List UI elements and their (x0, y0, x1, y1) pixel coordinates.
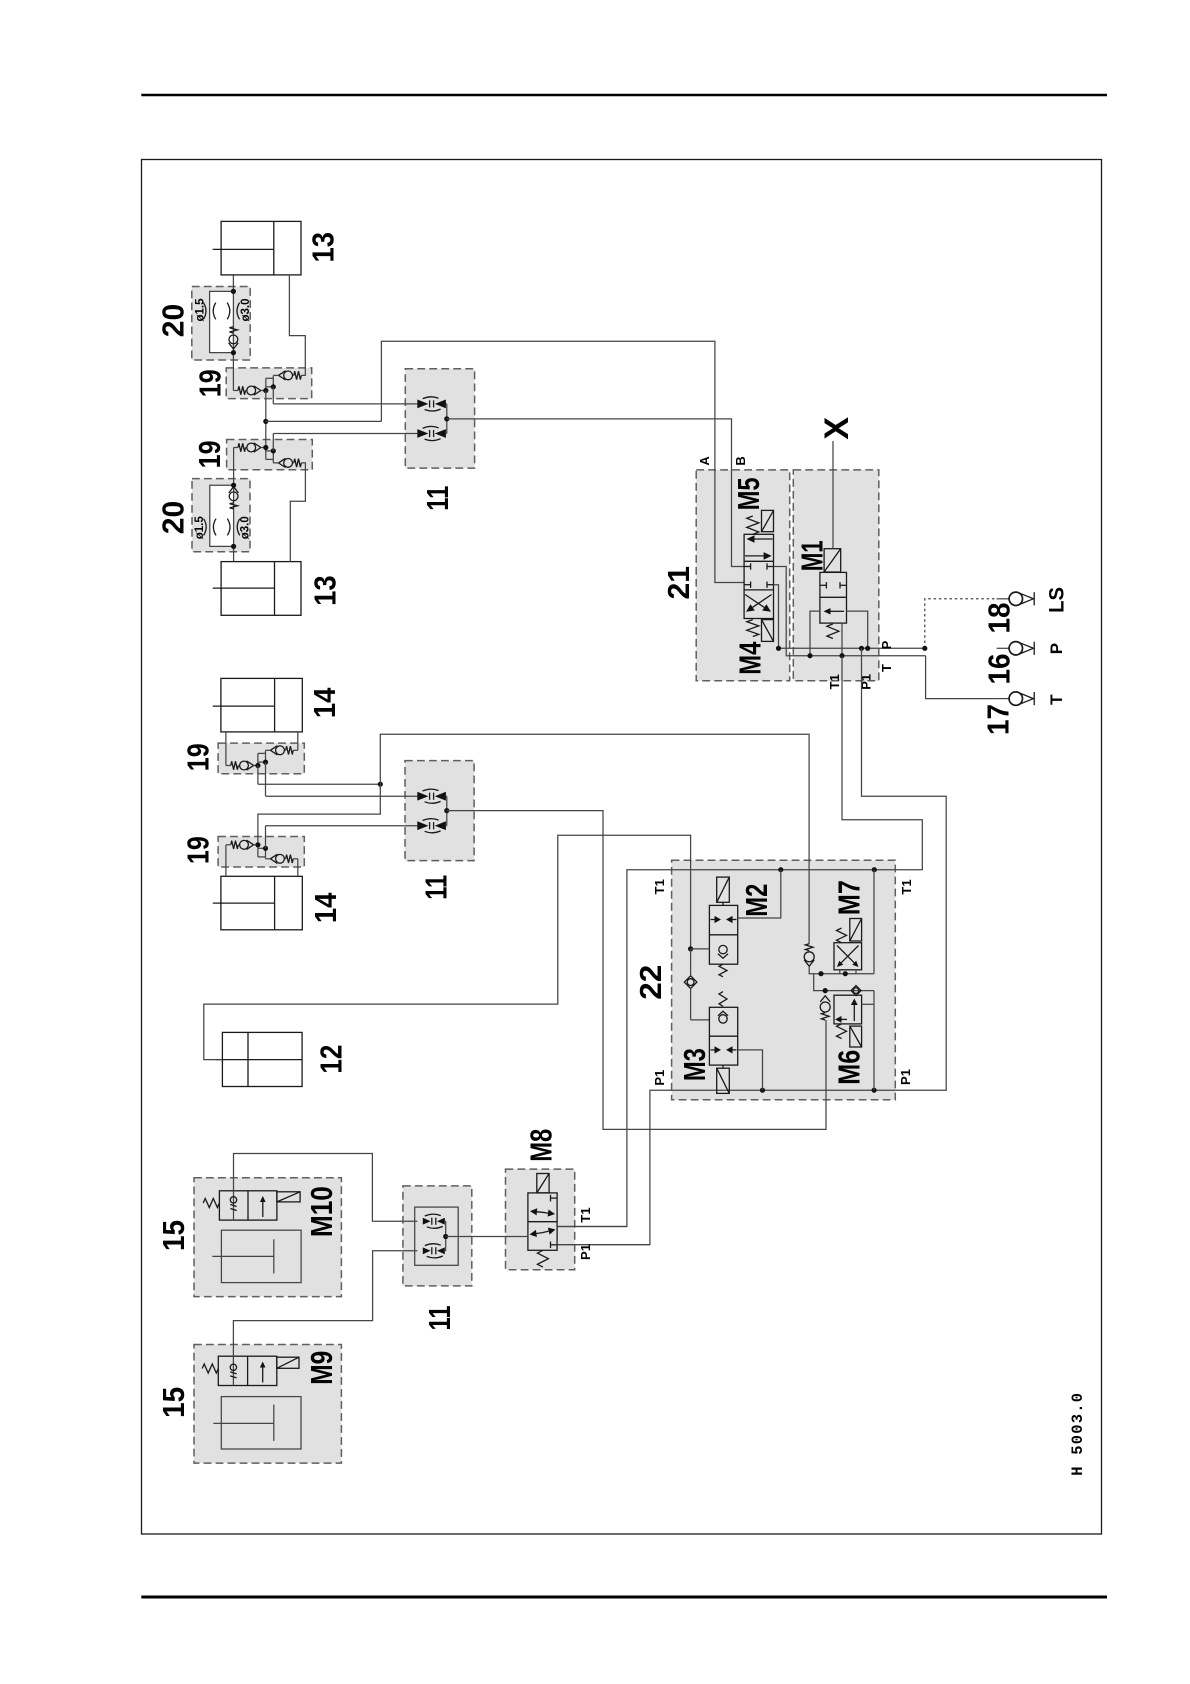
check valve block22 cv1 (804, 944, 814, 974)
valve M4/M5 center square port stubs (744, 563, 773, 588)
svg-text:21: 21 (662, 566, 696, 600)
check valve block22 cv2 (820, 996, 830, 1020)
wire 19c dotA3 down (258, 766, 380, 785)
svg-text:P1: P1 (898, 1069, 913, 1085)
label M10 (305, 1186, 339, 1237)
block M9 - gray enclosure (15) (194, 1345, 341, 1464)
label T1 right (899, 879, 914, 894)
wire T rail (774, 567, 926, 656)
valve M8 solenoid (537, 1174, 549, 1193)
wire 19a dotB link (266, 386, 274, 388)
wire - block19b to cyl13b port1 (234, 448, 238, 562)
valve M6 spring (837, 1024, 847, 1039)
wire cyl14a port2 (293, 732, 298, 750)
check valve 19a-left (238, 386, 266, 395)
node 19a dotA (263, 388, 268, 393)
label P1 M8 (578, 1244, 593, 1260)
valve M7 body (834, 943, 862, 970)
coupling 11t-1 (417, 397, 446, 411)
valve M3 spring (719, 992, 727, 1007)
label 17 (982, 704, 1016, 735)
wire 19a right-cv to dotB (272, 375, 274, 386)
svg-text:LS: LS (1046, 587, 1069, 613)
wire M3 out to P1 rail (738, 1050, 763, 1090)
label 15 lower (157, 1387, 191, 1418)
node 19b dotA2 (263, 445, 268, 450)
valve M2 solenoid (717, 877, 730, 905)
label P1 left (652, 1070, 667, 1086)
orifice 3.0 lower-20 (227, 519, 239, 536)
wire P1 run (557, 648, 946, 1244)
check valve 19a-right (273, 371, 301, 380)
valve M9 check (230, 1356, 236, 1385)
cylinder 12 (216, 1032, 302, 1086)
node P rail - M4/M5 drop (776, 646, 781, 651)
label 20 upper (156, 304, 190, 338)
wire L4 11m-out to block22 M6 (447, 811, 826, 1130)
label M6 (833, 1050, 867, 1085)
wire M2 in (691, 948, 710, 950)
svg-text:M4: M4 (733, 642, 767, 675)
label 14 upper (308, 688, 342, 719)
wire 11t couplings to node (445, 404, 448, 434)
valve M6 arrows (835, 999, 858, 1023)
valve M9 spring (202, 1364, 218, 1373)
wire T1 run (557, 656, 922, 1227)
valve M1 right bypass (847, 611, 868, 648)
valve M9 arrow (260, 1362, 266, 1383)
valve M4 square crossed arrows (745, 595, 772, 612)
label T port (1047, 694, 1066, 705)
label 16 (983, 654, 1017, 685)
svg-text:P: P (1047, 643, 1066, 654)
label LS (1046, 587, 1069, 613)
svg-text:11: 11 (423, 1305, 457, 1330)
wire 11m couplings to node (445, 796, 448, 826)
valve M3 ball (718, 1011, 728, 1023)
svg-text:15: 15 (157, 1387, 191, 1418)
wire 19a dotB to coupling (273, 387, 417, 404)
valve M4/M5 body (744, 534, 773, 618)
block 21 - gray enclosure left (M4/M5) (696, 470, 790, 681)
block 22 - gray enclosure (672, 860, 896, 1100)
svg-text:T1: T1 (827, 674, 842, 689)
valve M10 spring (203, 1199, 219, 1208)
node T rail - M1 left bypass (807, 653, 812, 658)
valve M5 square arrows (745, 535, 773, 560)
label M4 (733, 642, 767, 675)
svg-text:13: 13 (308, 575, 342, 606)
label P port (1047, 643, 1066, 654)
wire P rail (774, 585, 925, 649)
wire 19c dotB3 to coupling (266, 762, 418, 796)
svg-text:17: 17 (982, 704, 1016, 735)
valve M4 spring (747, 620, 759, 637)
label M2 (740, 884, 774, 917)
block 19 upper-b - gray enclosure (227, 440, 313, 470)
drawing number H 5003.0 (1069, 1392, 1087, 1476)
check valve M2/M3 trunk (684, 949, 709, 1020)
label 15 upper (157, 1220, 191, 1251)
wire M8 P1 port (557, 1244, 650, 1246)
wire 19c dotB3 link (258, 761, 266, 763)
valve M10 check (230, 1191, 236, 1220)
coupling 11b-2 (423, 1244, 445, 1258)
valve M2 arrows (711, 916, 737, 923)
node T1 rail right (872, 867, 877, 872)
node P rail - P1 branch (859, 646, 864, 651)
coupling 11m-2 (417, 819, 446, 833)
cylinder 14 lower (213, 876, 302, 930)
label 18 (983, 602, 1017, 633)
wire 19b right-cv to dotB2 (272, 451, 274, 463)
valve M1 body (820, 572, 847, 623)
coupling 11t-2 (417, 426, 446, 440)
wire 19b crossover dotA2 down (266, 448, 274, 460)
svg-text:15: 15 (157, 1220, 191, 1251)
label 20 lower (156, 501, 190, 535)
block M10 - gray enclosure (15) (194, 1178, 341, 1297)
label T1 M8 (578, 1207, 593, 1222)
node link1 b (843, 971, 848, 976)
orifice 3.0 upper-20 (227, 303, 239, 320)
valve M10 arrow (260, 1196, 266, 1217)
svg-text:T1: T1 (578, 1207, 593, 1222)
node 11m out (444, 808, 449, 813)
label 19 c (182, 743, 216, 771)
label 19 b (193, 440, 227, 468)
label 13 lower (308, 575, 342, 606)
valve M1 left bypass (810, 611, 820, 656)
svg-text:T1: T1 (899, 879, 914, 894)
label 14 lower (309, 893, 343, 924)
svg-text:14: 14 (309, 893, 343, 924)
coupling 11b-1 (423, 1214, 445, 1228)
svg-text:P: P (879, 640, 894, 649)
label M9 (305, 1351, 339, 1385)
wire 11b out to M8 (446, 1236, 528, 1238)
svg-text:12: 12 (314, 1045, 348, 1074)
svg-text:B: B (733, 456, 748, 465)
svg-text:A: A (697, 456, 712, 466)
svg-text:19: 19 (182, 836, 216, 864)
wire 19c right-cv to dotB3 (265, 750, 267, 762)
label 21 (662, 566, 696, 600)
label 13 upper (307, 232, 341, 262)
wire 19d dotB4 link (258, 847, 266, 849)
port P (16) (997, 642, 1035, 655)
valve M6 body (834, 995, 862, 1024)
svg-text:ø1.5: ø1.5 (194, 516, 206, 540)
wire T to port (926, 656, 997, 699)
label M7 (833, 880, 867, 915)
node - 20b top (231, 483, 236, 488)
label P1 block21 (859, 674, 874, 690)
valve M3 body (709, 1007, 737, 1065)
valve M10 body (219, 1191, 277, 1220)
valve M1 port stubs (820, 582, 847, 588)
svg-text:M7: M7 (833, 880, 867, 915)
valve M8 spring (537, 1250, 548, 1267)
node 19b dotB2 (271, 448, 276, 453)
label 19 d (182, 836, 216, 864)
valve M5 spring (747, 516, 759, 534)
label 12 (314, 1045, 348, 1074)
node P rail - M1 bypass (865, 646, 870, 651)
block 11 bottom - inner rect (415, 1207, 459, 1265)
label o3.0 upper (240, 298, 252, 321)
valve M1 bottom port (841, 623, 843, 656)
valve M1 pilot box (824, 549, 841, 572)
svg-text:M2: M2 (740, 884, 774, 917)
valve M9 solenoid (277, 1357, 299, 1368)
label 11 top (421, 486, 455, 511)
svg-text:T: T (879, 664, 894, 672)
label M5 (732, 477, 766, 510)
label M8 (525, 1129, 559, 1162)
wire 19c crossover dotA3 up (258, 753, 266, 765)
node 14-group junction (378, 782, 383, 787)
valve M6 solenoid (850, 1026, 862, 1047)
wire M6 right port (862, 1003, 874, 1005)
svg-text:ø3.0: ø3.0 (240, 516, 252, 539)
label T small (879, 664, 894, 672)
port T (17) (997, 692, 1035, 705)
node 19a dotB (271, 384, 276, 389)
valve M10 solenoid (277, 1192, 300, 1202)
svg-text:M5: M5 (732, 477, 766, 510)
svg-text:T1: T1 (652, 879, 667, 894)
svg-text:20: 20 (156, 501, 190, 535)
label P1 right (898, 1069, 913, 1085)
svg-text:M10: M10 (305, 1186, 339, 1237)
node dotC (263, 419, 268, 424)
valve M2 spring (719, 964, 727, 977)
node 19c dotA3 (255, 763, 260, 768)
node P1 rail right (872, 1088, 877, 1093)
wire M9 out (233, 1251, 417, 1356)
svg-text:T: T (1047, 694, 1066, 705)
block 11 bottom - gray enclosure (403, 1186, 472, 1286)
wire link2 line (814, 974, 874, 991)
node LS/P junction (922, 646, 927, 651)
wire cyl13a port2 (289, 275, 305, 376)
svg-text:ø1.5: ø1.5 (194, 298, 206, 322)
port LS (18) (997, 592, 1035, 605)
block 11 top - gray enclosure (405, 369, 474, 468)
node T1 rail left (778, 867, 783, 872)
block 20 upper - orifice/check sub-rect (210, 291, 234, 352)
wire crossover 13-group (265, 391, 267, 448)
wire cyl14b port1 (226, 845, 231, 877)
svg-text:M6: M6 (833, 1050, 867, 1085)
valve M9 actuator (213, 1397, 301, 1449)
svg-text:18: 18 (983, 602, 1017, 633)
label o3.0 lower (240, 516, 252, 539)
check valve 19b-right (273, 458, 301, 467)
svg-text:M8: M8 (525, 1129, 559, 1162)
node T rail - T1 branch (839, 653, 844, 658)
valve M5 solenoid (762, 510, 774, 531)
node link1 a (818, 971, 823, 976)
check valve on link2 (diamond) (851, 986, 861, 996)
block 19 mid-c - gray enclosure (218, 743, 304, 774)
node P1 rail left (760, 1088, 765, 1093)
valve M3 arrows (711, 1046, 737, 1053)
cylinder 13 lower (213, 562, 301, 616)
svg-text:16: 16 (983, 654, 1017, 685)
wire 19b dotB2 link (266, 450, 274, 452)
label 11 mid (420, 875, 454, 900)
svg-text:11: 11 (421, 486, 455, 511)
wire 11b couplings to node (444, 1221, 447, 1251)
wire LS dotted (925, 599, 997, 649)
cylinder 14 upper (213, 678, 302, 732)
svg-text:H 5003.0: H 5003.0 (1069, 1392, 1087, 1476)
check valve 19b-left (238, 443, 266, 452)
valve M2 ball (718, 945, 728, 958)
label 19 a (194, 369, 228, 397)
wire cyl14b port2 (293, 859, 298, 877)
valve M2 body (709, 905, 737, 964)
wire L3 to block22 M7 (380, 734, 809, 944)
check valve 19c-right (266, 746, 294, 755)
svg-text:M1: M1 (796, 540, 830, 571)
valve M7 solenoid (850, 919, 862, 942)
node 19c dotB3 (263, 760, 268, 765)
node - 20a top (231, 289, 236, 294)
label P small (879, 640, 894, 649)
svg-text:M9: M9 (305, 1351, 339, 1385)
node M2 in (688, 946, 693, 951)
check valve 19c-left (231, 761, 258, 770)
valve M3 solenoid (717, 1065, 730, 1093)
svg-text:13: 13 (307, 232, 341, 262)
check valve in block 20 lower (229, 487, 239, 509)
check valve in block 20 upper (229, 327, 239, 349)
block 20 lower - orifice/check sub-rect (210, 485, 234, 546)
valve M1 spring (827, 624, 839, 639)
wire X pilot line (832, 441, 834, 549)
wire 19b dotB2 to coupling (273, 434, 417, 451)
label B (733, 456, 748, 465)
valve M7 crossed arrows (837, 946, 859, 968)
valve M10 actuator (212, 1230, 301, 1282)
label M3 (678, 1048, 712, 1081)
label T1 block21 (827, 674, 842, 689)
page top rule (141, 94, 1107, 97)
valve M4 solenoid (762, 620, 774, 642)
wire M8 T1 port (557, 1226, 627, 1228)
node 19d dotA4 (255, 842, 260, 847)
wire link2 to P1 rail (873, 991, 875, 1091)
node 11t out (444, 416, 449, 421)
wire 19d crossover dotA4 down (258, 845, 266, 857)
block 19 upper-a - gray enclosure (226, 368, 312, 399)
label o1.5 upper (194, 298, 206, 322)
wire - cyl13a port1 to block19a main line (233, 275, 238, 391)
cylinder 13 upper (213, 221, 301, 275)
node 19d dotB4 (263, 846, 268, 851)
wire L2 to valve B (447, 419, 744, 567)
wire crossover 14-group (258, 784, 380, 845)
coupling 11m-1 (417, 789, 446, 803)
node 11b out (443, 1234, 448, 1239)
block 11 mid - gray enclosure (405, 761, 474, 861)
svg-text:11: 11 (420, 875, 454, 900)
node - 20a bottom (231, 350, 236, 355)
wire dotC to valve-A riser (266, 420, 382, 422)
label X (818, 417, 856, 440)
svg-text:19: 19 (182, 743, 216, 771)
valve M9 body (218, 1356, 276, 1385)
svg-text:20: 20 (156, 304, 190, 338)
wire 19d dotB4 to coupling (266, 826, 418, 849)
wire cyl14a port1 (226, 732, 231, 766)
wire W1 cyl12 to block22 M2/M3 trunk (204, 835, 691, 1059)
svg-text:P1: P1 (578, 1244, 593, 1260)
block 21 - gray enclosure right (M1) (793, 470, 879, 681)
block 20 upper - gray enclosure (192, 287, 250, 361)
orifice 1.5 lower-20 (204, 519, 216, 536)
page bottom rule (141, 1596, 1107, 1599)
svg-text:X: X (818, 417, 856, 440)
block 20 lower - gray enclosure (192, 479, 250, 552)
svg-text:P1: P1 (652, 1070, 667, 1086)
label T1 left (652, 879, 667, 894)
drawing border frame (142, 160, 1102, 1535)
node link2 a (823, 988, 828, 993)
valve M8 body (528, 1193, 557, 1250)
valve M8 arrows (530, 1195, 558, 1248)
valve M7 spring (837, 928, 847, 943)
valve M1 arrow (824, 608, 845, 614)
label o1.5 lower (194, 516, 206, 540)
wire L1 to valve A (381, 341, 744, 582)
label M1 (796, 540, 830, 571)
wire M7 link line (809, 970, 874, 974)
orifice 1.5 upper-20 (203, 303, 215, 320)
svg-text:M3: M3 (678, 1048, 712, 1081)
label 22 (634, 965, 668, 1000)
svg-text:19: 19 (193, 440, 227, 468)
block M8 - gray enclosure (506, 1169, 575, 1270)
wire M2 out to T1 rail (738, 870, 781, 918)
svg-text:14: 14 (308, 688, 342, 719)
svg-text:22: 22 (634, 965, 668, 1000)
label 11 bottom (423, 1305, 457, 1330)
svg-text:19: 19 (194, 369, 228, 397)
check valve 19d-right (266, 854, 294, 863)
node - 20b bottom (231, 544, 236, 549)
label A (697, 456, 712, 466)
wire 19a crossover dotA up (266, 378, 274, 390)
wire M10 out (234, 1154, 418, 1222)
wire cyl13b port2 (290, 463, 305, 562)
block 19 mid-d - gray enclosure (218, 837, 304, 868)
check valve 19d-left (231, 840, 258, 849)
wire link1 to T1 rail (873, 870, 875, 974)
wire 19d right-cv to dotB4 (265, 848, 267, 859)
svg-text:ø3.0: ø3.0 (240, 298, 252, 321)
